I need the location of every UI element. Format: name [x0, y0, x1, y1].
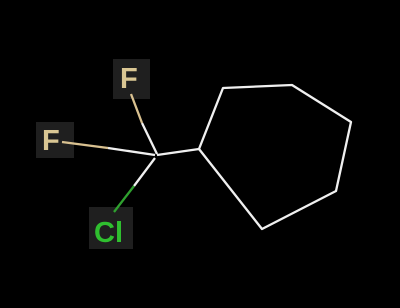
- bond C to left F : left half orange: [62, 142, 108, 148]
- bond C to ring: [157, 149, 199, 155]
- bond C to left F : right half white: [108, 148, 155, 155]
- svg-text:F: F: [120, 63, 138, 95]
- svg-text:F: F: [42, 125, 60, 157]
- bond C to Cl : lower half green: [114, 186, 134, 212]
- artifact block behind left F: [36, 122, 74, 158]
- bond C to top F : lower half white: [142, 123, 157, 154]
- artifact block behind Cl: [89, 207, 133, 249]
- artifact block behind top F: [113, 59, 150, 99]
- bond C to Cl : upper half white: [134, 158, 155, 186]
- cyclohexane ring: [199, 85, 351, 229]
- svg-text:Cl: Cl: [94, 217, 123, 249]
- bond C to top F : upper half orange: [131, 94, 142, 123]
